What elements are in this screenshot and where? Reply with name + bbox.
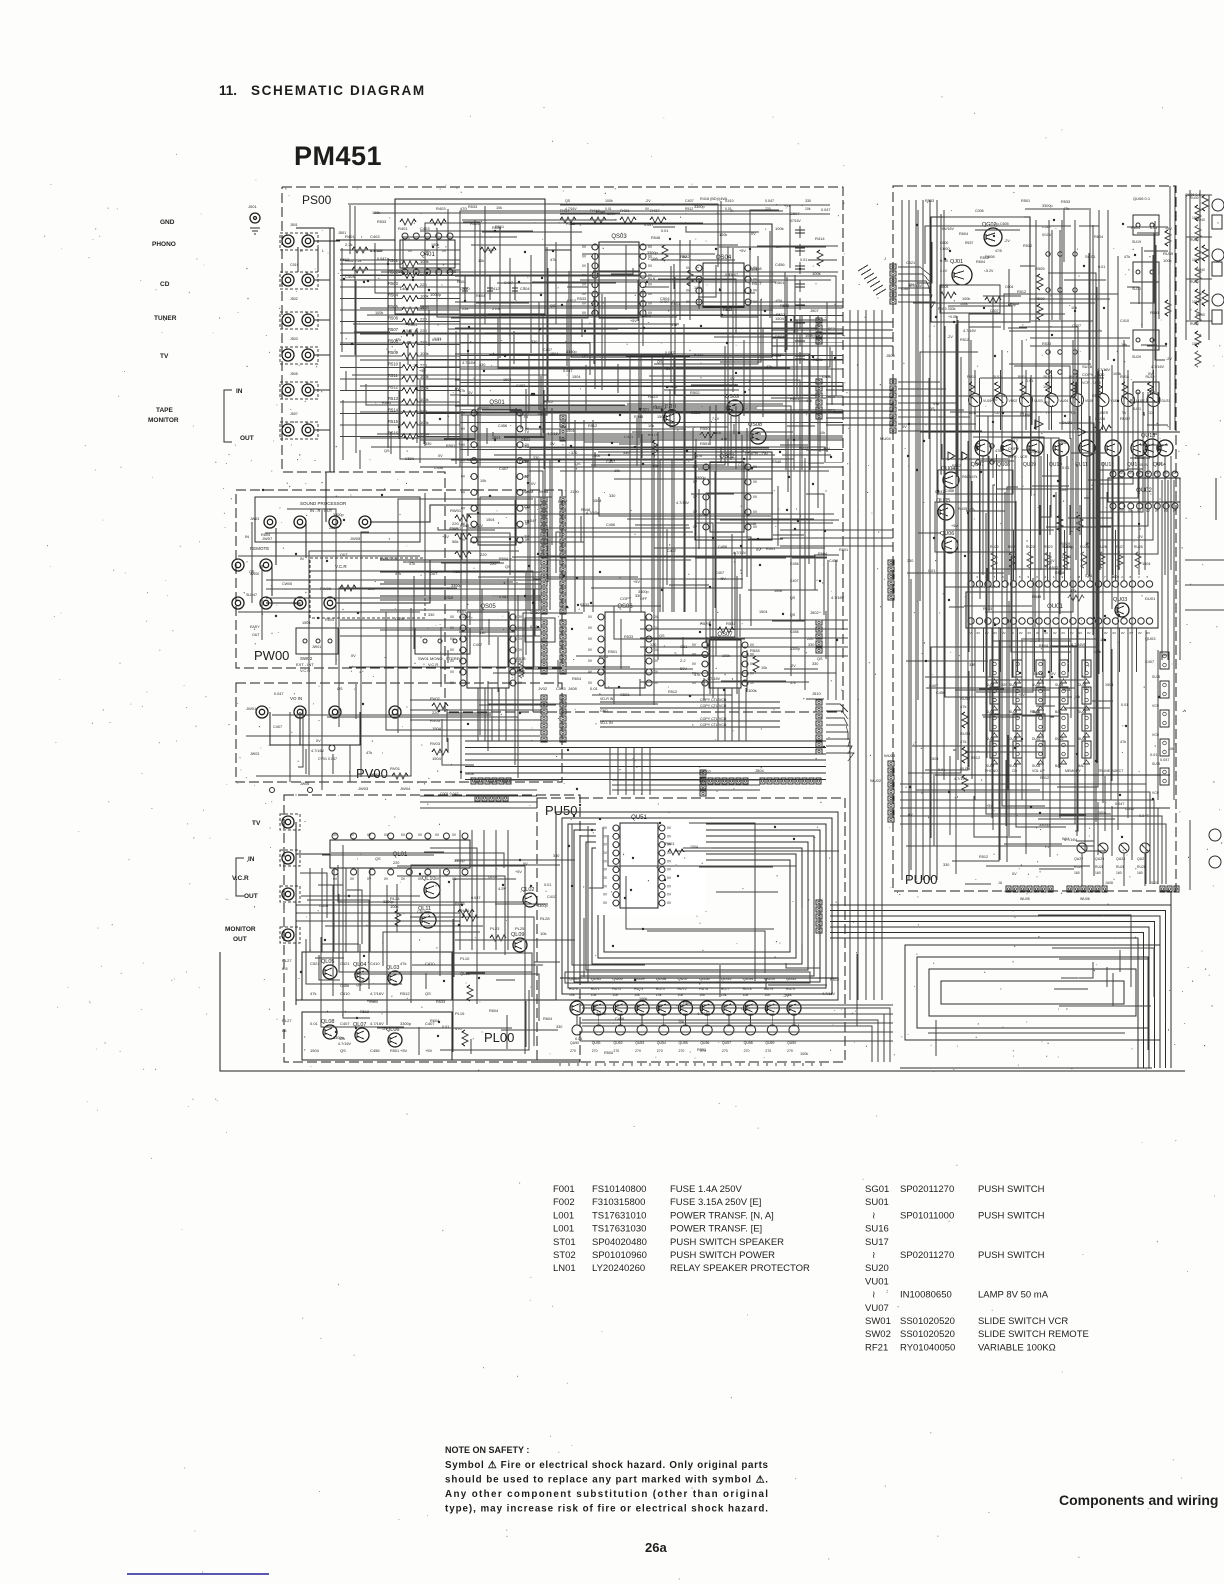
svg-text:4.7/16V: 4.7/16V	[1151, 365, 1165, 369]
svg-text:CV01 0.047: CV01 0.047	[318, 757, 337, 761]
svg-text:47k: 47k	[696, 454, 702, 458]
svg-text:10k: 10k	[761, 666, 767, 670]
svg-text:0.01: 0.01	[938, 768, 945, 772]
svg-text:330: 330	[812, 662, 818, 666]
svg-text:330: 330	[907, 559, 913, 563]
svg-text:100k: 100k	[960, 302, 968, 306]
svg-text:100k: 100k	[372, 211, 380, 215]
svg-text:COPY CTL/VCR: COPY CTL/VCR	[700, 723, 727, 727]
svg-text:100k: 100k	[1058, 439, 1066, 443]
svg-text:R604: R604	[476, 294, 485, 298]
svg-text:PM451: PM451	[294, 141, 382, 171]
svg-text:DU21: DU21	[1062, 420, 1073, 425]
svg-text:R501: R501	[370, 773, 379, 777]
svg-text:R548: R548	[1030, 710, 1039, 714]
svg-text:WU03: WU03	[884, 753, 896, 758]
svg-text:R403: R403	[436, 206, 446, 211]
svg-text:TS17631010: TS17631010	[592, 1210, 646, 1221]
svg-text:QU55: QU55	[721, 976, 732, 981]
svg-text:RY01040050: RY01040050	[900, 1342, 955, 1353]
svg-text:47k: 47k	[721, 437, 727, 441]
svg-text:FUSE 1.4A 250V: FUSE 1.4A 250V	[670, 1184, 742, 1195]
svg-text:4.7/16V: 4.7/16V	[311, 749, 325, 753]
svg-text:220: 220	[329, 526, 335, 530]
svg-text:R512: R512	[1023, 244, 1032, 248]
svg-text:PL10: PL10	[460, 956, 470, 961]
svg-text:56k: 56k	[452, 539, 458, 544]
svg-text:0V: 0V	[1070, 631, 1074, 635]
svg-text:R548: R548	[1032, 595, 1041, 599]
svg-text:10k: 10k	[569, 993, 575, 997]
svg-text:TV: TV	[1122, 411, 1127, 415]
svg-text:R510: R510	[388, 362, 399, 367]
svg-text:RU39: RU39	[1163, 251, 1174, 256]
svg-text:IN: IN	[236, 388, 243, 395]
svg-text:C407: C407	[790, 579, 799, 583]
svg-text:R604: R604	[1131, 226, 1140, 230]
svg-text:R512: R512	[971, 756, 980, 760]
svg-text:L: L	[286, 233, 288, 237]
svg-text:C407: C407	[901, 287, 910, 291]
svg-text:RU28: RU28	[1095, 865, 1104, 869]
svg-text:26a: 26a	[645, 1540, 667, 1555]
svg-text:1504: 1504	[593, 499, 601, 503]
svg-text:-2V: -2V	[560, 425, 566, 429]
svg-text:CD: CD	[1012, 769, 1018, 773]
svg-text:47k: 47k	[550, 258, 556, 262]
svg-text:1504: 1504	[930, 757, 938, 761]
svg-text:10k: 10k	[819, 431, 825, 435]
svg-text:PUSH SWITCH SPEAKER: PUSH SWITCH SPEAKER	[670, 1237, 784, 1248]
svg-text:should be used to replace any: should be used to replace any part marke…	[445, 1475, 768, 1486]
svg-text:OUT: OUT	[244, 893, 258, 900]
svg-text:R604: R604	[790, 397, 799, 401]
svg-text:0V: 0V	[531, 482, 536, 486]
svg-text:0V: 0V	[455, 387, 460, 391]
svg-text:R501: R501	[382, 401, 391, 405]
svg-text:+5V: +5V	[719, 577, 726, 581]
svg-text:Symbol ⚠ Fire or electrical sh: Symbol ⚠ Fire or electrical shock hazard…	[445, 1460, 769, 1471]
svg-text:C456: C456	[340, 984, 349, 988]
svg-text:0V: 0V	[693, 525, 698, 529]
svg-text:+5V: +5V	[951, 524, 958, 528]
svg-text:CD: CD	[995, 411, 1000, 415]
svg-text:160: 160	[1116, 871, 1122, 875]
svg-text:GND: GND	[160, 219, 175, 226]
svg-text:QU06 0.1: QU06 0.1	[1133, 196, 1151, 201]
svg-text:JW06: JW06	[300, 782, 309, 786]
svg-text:11.: 11.	[219, 83, 237, 98]
svg-text:0.047: 0.047	[527, 519, 537, 523]
svg-text:J: J	[884, 256, 886, 261]
svg-text:0.047: 0.047	[274, 692, 284, 696]
svg-text:+5V: +5V	[400, 1048, 408, 1053]
svg-text:0.047: 0.047	[765, 199, 774, 203]
svg-text:QS: QS	[659, 634, 665, 638]
svg-text:QS: QS	[790, 596, 796, 600]
svg-text:R512: R512	[952, 464, 961, 468]
svg-text:JW00: JW00	[250, 572, 259, 576]
svg-text:220: 220	[420, 340, 427, 345]
svg-text:1504: 1504	[572, 375, 580, 379]
svg-text:QU06: QU06	[940, 531, 954, 537]
svg-text:R551: R551	[700, 441, 710, 446]
svg-text:R501: R501	[457, 280, 466, 284]
svg-text:0.01: 0.01	[661, 229, 668, 233]
svg-text:R401: R401	[398, 226, 408, 231]
svg-text:0V: 0V	[1148, 372, 1153, 376]
svg-text:DU31: DU31	[1162, 399, 1171, 403]
svg-text:R: R	[300, 249, 303, 253]
svg-text:J408: J408	[465, 771, 474, 776]
svg-text:330: 330	[943, 863, 949, 867]
svg-text:RU27: RU27	[1116, 545, 1125, 549]
svg-text:1001: 1001	[1192, 258, 1200, 262]
svg-text:R535: R535	[516, 656, 526, 661]
svg-text:0V: 0V	[730, 377, 735, 381]
svg-text:160: 160	[1137, 871, 1143, 875]
svg-text:1504: 1504	[1105, 683, 1113, 687]
svg-text:0V: 0V	[667, 859, 672, 863]
svg-text:4.7/16V: 4.7/16V	[593, 1012, 607, 1016]
svg-text:1001: 1001	[1192, 300, 1200, 304]
svg-text:QS: QS	[582, 354, 588, 358]
svg-text:270: 270	[787, 1049, 793, 1053]
svg-text:0V: 0V	[1138, 631, 1142, 635]
svg-text:L: L	[286, 347, 288, 351]
svg-text:RU73: RU73	[634, 987, 643, 991]
svg-text:RU23: RU23	[1044, 545, 1053, 549]
svg-text:3300p: 3300p	[1039, 823, 1050, 827]
svg-text:RU77: RU77	[721, 987, 730, 991]
svg-text:QU51: QU51	[631, 815, 647, 821]
svg-text:R516: R516	[388, 431, 399, 436]
svg-text:QU62: QU62	[569, 976, 580, 981]
svg-text:QS: QS	[340, 1048, 346, 1053]
svg-text:SP04020480: SP04020480	[592, 1237, 647, 1248]
svg-text:0.01: 0.01	[800, 258, 807, 262]
svg-text:-2V: -2V	[775, 244, 782, 249]
svg-text:R501: R501	[653, 406, 662, 410]
svg-text:QS: QS	[384, 449, 390, 453]
svg-text:R604: R604	[489, 1009, 498, 1013]
svg-text:270: 270	[679, 1049, 685, 1053]
svg-text:0V: 0V	[468, 391, 473, 395]
svg-text:C407: C407	[487, 248, 496, 252]
svg-text:220: 220	[813, 335, 819, 339]
svg-text:VCR: VCR	[969, 411, 977, 415]
svg-text:J503: J503	[290, 337, 298, 341]
svg-text:R512: R512	[567, 299, 576, 303]
svg-text:100k: 100k	[722, 654, 730, 658]
svg-text:0V: 0V	[588, 648, 593, 652]
svg-text:F1: F1	[1045, 845, 1049, 849]
svg-text:C410: C410	[738, 463, 747, 467]
svg-text:BAL: BAL	[1055, 764, 1061, 768]
svg-text:C521: C521	[620, 692, 630, 697]
svg-text:QS: QS	[550, 304, 556, 308]
svg-text:QL09: QL09	[511, 932, 524, 938]
svg-text:JW03: JW03	[250, 517, 259, 521]
svg-text:RU76: RU76	[699, 987, 708, 991]
svg-text:J502: J502	[810, 610, 819, 615]
svg-text:1504: 1504	[759, 610, 767, 614]
svg-text:RL27: RL27	[282, 958, 292, 963]
svg-text:220: 220	[1001, 683, 1007, 687]
svg-text:BAL: BAL	[1055, 710, 1061, 714]
svg-text:0V: 0V	[435, 833, 440, 837]
svg-text:RU78: RU78	[743, 987, 752, 991]
svg-text:QU07: QU07	[971, 462, 984, 468]
svg-text:+5V: +5V	[425, 1048, 433, 1053]
svg-text:R533: R533	[723, 308, 732, 312]
svg-text:VARIABLE 100KΩ: VARIABLE 100KΩ	[978, 1342, 1056, 1353]
svg-text:330: 330	[533, 456, 539, 460]
svg-text:0.01: 0.01	[310, 1021, 319, 1026]
svg-text:0V: 0V	[603, 901, 608, 905]
svg-text:VCR: VCR	[1152, 704, 1160, 708]
svg-text:0.01: 0.01	[544, 883, 551, 887]
svg-text:-2V: -2V	[477, 524, 483, 528]
svg-text:330: 330	[805, 199, 811, 203]
svg-text:330: 330	[531, 340, 537, 344]
svg-text:0V: 0V	[693, 465, 698, 469]
svg-text:RU30: RU30	[1190, 196, 1199, 200]
svg-text:QL02: QL02	[521, 887, 534, 893]
svg-text:3300p: 3300p	[383, 900, 394, 904]
svg-text:0V: 0V	[753, 510, 758, 514]
svg-text:0V: 0V	[367, 833, 372, 837]
svg-text:330: 330	[479, 363, 485, 367]
svg-text:SLIDE SWITCH REMOTE: SLIDE SWITCH REMOTE	[978, 1329, 1089, 1340]
svg-text:1001: 1001	[1192, 216, 1200, 220]
svg-text:270: 270	[570, 1049, 576, 1053]
svg-text:3300p: 3300p	[537, 904, 548, 908]
svg-text:VOL UP: VOL UP	[1032, 769, 1045, 773]
svg-text:C403: C403	[370, 234, 380, 239]
svg-text:+5V: +5V	[739, 249, 746, 253]
svg-text:0V: 0V	[682, 255, 687, 259]
svg-text:RU30: RU30	[1190, 322, 1199, 326]
svg-text:0V: 0V	[686, 289, 691, 293]
svg-text:4.7/16V: 4.7/16V	[831, 596, 845, 600]
svg-text:QU61: QU61	[591, 976, 602, 981]
svg-text:0.01: 0.01	[725, 207, 732, 211]
svg-text:RU75: RU75	[678, 987, 687, 991]
svg-text:0V: 0V	[1087, 631, 1091, 635]
svg-text:COPY: COPY	[1082, 372, 1094, 377]
svg-text:C456: C456	[829, 559, 838, 563]
svg-text:SW01 MONO - STEREO: SW01 MONO - STEREO	[418, 656, 462, 661]
svg-text:QU05: QU05	[936, 498, 950, 504]
svg-text:QU51: QU51	[592, 1041, 601, 1045]
svg-text:0V: 0V	[1121, 631, 1125, 635]
svg-text:L: L	[286, 382, 288, 386]
svg-text:R512: R512	[400, 991, 410, 996]
svg-text:100k: 100k	[719, 233, 727, 237]
svg-text:C407: C407	[273, 725, 282, 729]
svg-text:≀: ≀	[872, 1250, 876, 1261]
svg-text:1504: 1504	[657, 415, 665, 419]
svg-text:TV: TV	[524, 534, 529, 539]
svg-text:0V: 0V	[645, 207, 650, 211]
svg-text:R548: R548	[651, 236, 660, 240]
svg-text:10k: 10k	[721, 993, 727, 997]
svg-text:C521: C521	[906, 261, 915, 265]
svg-text:0V: 0V	[753, 465, 758, 469]
svg-text:R604: R604	[976, 260, 985, 264]
svg-text:+5V: +5V	[784, 204, 791, 208]
svg-text:0V: 0V	[667, 834, 672, 838]
svg-text:10k: 10k	[1121, 343, 1127, 347]
svg-text:SW02: SW02	[865, 1329, 891, 1340]
svg-text:R533: R533	[377, 220, 386, 224]
svg-text:0V: 0V	[582, 254, 587, 258]
svg-text:SU15: SU15	[1152, 675, 1160, 679]
svg-text:R512: R512	[544, 400, 553, 404]
svg-text:J502: J502	[290, 297, 298, 301]
svg-text:RU72: RU72	[612, 987, 621, 991]
svg-text:C604: C604	[1005, 285, 1013, 289]
svg-text:R512: R512	[979, 855, 988, 859]
svg-text:QU09: QU09	[1023, 462, 1036, 468]
svg-text:QL05: QL05	[321, 959, 334, 965]
svg-text:R507: R507	[388, 327, 399, 332]
svg-text:JW01: JW01	[312, 645, 321, 649]
svg-text:R512: R512	[1017, 290, 1026, 294]
svg-text:2.2k: 2.2k	[345, 242, 353, 247]
svg-text:PHONO: PHONO	[985, 769, 998, 773]
svg-text:10k: 10k	[678, 1020, 684, 1024]
svg-text:C600: C600	[940, 246, 950, 251]
svg-text:QL03: QL03	[386, 965, 399, 971]
svg-text:270: 270	[722, 1049, 728, 1053]
svg-text:SP02011270: SP02011270	[900, 1250, 954, 1261]
svg-text:0V: 0V	[750, 643, 755, 647]
svg-text:C456: C456	[467, 458, 476, 462]
svg-text:R501: R501	[446, 444, 455, 448]
svg-text:0V: 0V	[518, 637, 523, 641]
svg-text:-2V: -2V	[382, 1027, 388, 1031]
svg-text:0V: 0V	[1053, 631, 1057, 635]
svg-text:0V: 0V	[1104, 631, 1108, 635]
svg-text:L: L	[286, 272, 288, 276]
svg-text:TV: TV	[1046, 411, 1051, 415]
svg-text:R503: R503	[388, 281, 399, 286]
svg-text:QS: QS	[790, 613, 796, 617]
svg-text:0V: 0V	[750, 681, 755, 685]
svg-text:0V: 0V	[1079, 631, 1083, 635]
svg-text:330: 330	[571, 451, 577, 455]
svg-text:≀: ≀	[872, 1290, 876, 1301]
svg-text:QU59: QU59	[765, 1041, 774, 1045]
svg-text:SU19: SU19	[1132, 240, 1141, 244]
svg-text:0V: 0V	[350, 833, 355, 837]
svg-text:POWER TRANSF. [E]: POWER TRANSF. [E]	[670, 1224, 762, 1235]
svg-text:REMOTE: REMOTE	[250, 546, 269, 551]
svg-text:R533: R533	[294, 602, 303, 606]
svg-text:C407: C407	[929, 684, 938, 688]
svg-text:WU05: WU05	[1020, 897, 1030, 901]
svg-text:C404: C404	[520, 286, 530, 291]
svg-text:C456: C456	[447, 270, 456, 274]
svg-text:PUSH SWITCH: PUSH SWITCH	[978, 1184, 1045, 1195]
svg-text:C456: C456	[772, 354, 781, 358]
svg-text:0V: 0V	[692, 662, 697, 666]
svg-text:0V: 0V	[667, 893, 672, 897]
svg-text:R421: R421	[620, 208, 630, 213]
svg-text:0.01: 0.01	[442, 1025, 449, 1029]
svg-text:POWER TRANSF. [N, A]: POWER TRANSF. [N, A]	[670, 1210, 774, 1221]
svg-text:6.8: 6.8	[282, 966, 288, 971]
svg-text:C410: C410	[444, 596, 453, 600]
svg-text:4.7/16V: 4.7/16V	[954, 777, 968, 781]
svg-text:QU60: QU60	[612, 976, 623, 981]
svg-text:+5V: +5V	[1018, 693, 1025, 697]
svg-text:1001: 1001	[1192, 342, 1200, 346]
svg-text:QU03: QU03	[1113, 597, 1127, 603]
svg-text:0.047: 0.047	[403, 329, 413, 333]
svg-text:47k: 47k	[995, 449, 1001, 453]
svg-text:47k: 47k	[395, 572, 401, 576]
svg-text:C001 0.047: C001 0.047	[440, 792, 459, 796]
svg-text:10k: 10k	[656, 993, 662, 997]
svg-text:R548: R548	[596, 210, 605, 214]
svg-text:QS: QS	[356, 983, 362, 987]
svg-text:J408: J408	[568, 686, 577, 691]
svg-text:0.01: 0.01	[1062, 466, 1069, 470]
svg-text:R509: R509	[388, 350, 399, 355]
svg-text:IN: IN	[300, 557, 304, 561]
svg-text:R512: R512	[1049, 566, 1058, 570]
svg-text:10k: 10k	[743, 993, 749, 997]
svg-text:47k: 47k	[310, 991, 316, 996]
svg-text:160: 160	[1095, 871, 1101, 875]
svg-text:TRUNE INJECT: TRUNE INJECT	[1098, 769, 1124, 773]
svg-text:RU20: RU20	[990, 545, 999, 549]
svg-text:R501: R501	[1021, 199, 1030, 203]
svg-text:R501: R501	[776, 313, 785, 317]
svg-text:0V: 0V	[648, 283, 653, 287]
svg-text:R501: R501	[775, 280, 785, 285]
svg-text:C407: C407	[1072, 324, 1081, 328]
svg-text:TV: TV	[160, 353, 169, 360]
svg-text:SU15: SU15	[1152, 762, 1160, 766]
svg-text:0.01: 0.01	[1026, 379, 1033, 383]
svg-text:47k: 47k	[790, 681, 796, 685]
svg-text:0V: 0V	[384, 833, 389, 837]
svg-text:220: 220	[699, 513, 705, 517]
svg-text:0V: 0V	[667, 901, 672, 905]
svg-text:47k: 47k	[1120, 740, 1126, 744]
svg-text:3300p: 3300p	[647, 251, 658, 255]
svg-text:0V: 0V	[550, 442, 555, 446]
svg-text:330: 330	[556, 1025, 562, 1029]
svg-text:R512: R512	[388, 385, 399, 390]
svg-text:SU18: SU18	[1082, 364, 1093, 369]
svg-text:0V: 0V	[384, 877, 389, 881]
svg-text:C521: C521	[521, 438, 530, 442]
svg-text:4.7/16V: 4.7/16V	[1028, 450, 1042, 454]
svg-text:330: 330	[425, 442, 431, 446]
svg-text:0V: 0V	[518, 681, 523, 685]
svg-text:C006: C006	[975, 209, 984, 213]
svg-text:C456: C456	[945, 489, 954, 493]
svg-text:0V: 0V	[654, 681, 659, 685]
svg-text:0V: 0V	[667, 868, 672, 872]
svg-text:660p: 660p	[1008, 303, 1016, 307]
svg-text:QS: QS	[575, 462, 581, 466]
